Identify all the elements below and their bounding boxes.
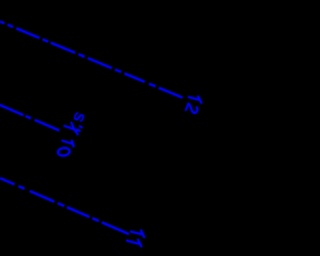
wire A (top dash-dot line) xyxy=(0,22,183,98)
label 12 : digit 1 (custom strokes) xyxy=(189,97,202,103)
label str 10 : digit 1 (custom strokes) xyxy=(62,141,73,147)
wire C (bottom dash-dot line) xyxy=(0,178,129,234)
label str 10 : digit 0 (custom ellipse) xyxy=(57,147,70,156)
wire B (middle dash-dot line) xyxy=(0,105,59,131)
label str 10 : t xyxy=(65,123,77,131)
label str 10 : r xyxy=(75,126,81,134)
label 11 : digit 1a (custom strokes) xyxy=(131,230,144,237)
label 11 : digit 1b (custom strokes) xyxy=(127,240,141,247)
